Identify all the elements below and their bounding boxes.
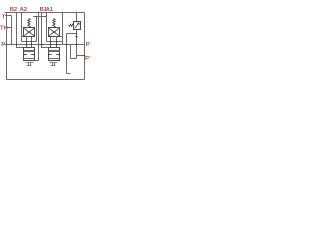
svg-text:P: P (1, 42, 5, 48)
junction lv-right y41.5 (31, 41, 33, 43)
valve V2 bowtie X diagonals (49, 28, 59, 35)
wire ladder drain stub left (35, 60, 39, 62)
junction tank line / P line (11, 44, 13, 46)
wire U bottom (71, 58, 77, 60)
junction PT / right border (84, 55, 86, 57)
spring S1 on valve V1 (28, 19, 31, 28)
wire from link dot down (36, 17, 38, 42)
wire relief valve feed (76, 13, 78, 22)
wire top rail (5, 12, 85, 14)
wire feed B1 lower to ladder (42, 45, 49, 48)
valve V2 body (49, 28, 60, 37)
ladder L1 rung 3 broken (24, 54, 35, 56)
junction rv-left y44.5 (50, 44, 52, 46)
junction pilot / P line (66, 44, 68, 46)
wire feed B2 (16, 13, 18, 45)
junction P-left (6, 44, 8, 46)
wire right valve lower-right port (56, 37, 58, 48)
ladder L1 rung 4 (24, 58, 35, 60)
svg-text:P: P (86, 42, 90, 48)
wire link line right section (33, 16, 47, 18)
valve V1 bowtie X diagonals (24, 28, 34, 35)
svg-text:PT: PT (85, 56, 90, 62)
ladder L2 rung 4 (49, 58, 60, 60)
junction rv-left y41.5 (50, 41, 52, 43)
wire P stub (5, 44, 7, 46)
ladder L1 rung 1 (24, 50, 35, 52)
relief valve RV1 body (74, 22, 81, 30)
wire right of right valve (62, 13, 64, 45)
spring S3 relief valve (69, 24, 74, 26)
valve V1 bowtie center tips (28, 31, 31, 33)
wire feed A1 (46, 13, 48, 42)
valve V2 bowtie center tips (53, 31, 56, 33)
junction rv-right y41.5 (56, 41, 58, 43)
junction lv-left y41.5 (26, 41, 28, 43)
spring S2 on valve V2 (53, 19, 56, 28)
junction feed B2 / P line (16, 44, 18, 46)
wire U left upright (70, 45, 72, 59)
plug symbol below ladder L2 (50, 63, 58, 66)
wire right valve lower-left port (50, 37, 52, 48)
junction link dot (36, 16, 38, 18)
ladder block L1 body (24, 48, 35, 61)
junction L1 rung3 right (33, 54, 35, 56)
wire tank stub (67, 73, 71, 75)
ladder L2 rung 1 (49, 50, 60, 52)
arrowhead flow direction on drain (75, 36, 77, 38)
junction L1 rung3 left (23, 54, 25, 56)
junction L2 rung3 right (58, 54, 60, 56)
plug symbol below ladder L1 (26, 63, 34, 66)
wire feed B2 lower to ladder (17, 45, 24, 48)
junction lv-right y44.5 (31, 44, 33, 46)
wire right border (84, 13, 86, 80)
wire T/TH tank line (11, 16, 13, 45)
wire horizontal y41.5 right section (47, 41, 63, 43)
wire pilot vertical down to tank corner (66, 34, 68, 74)
wire PT line to right border (77, 55, 85, 57)
wire feed A2 (21, 13, 23, 42)
ladder L2 rung 3 broken (49, 54, 60, 56)
wire left valve lower-right port (31, 37, 33, 48)
junction L2 rung3 left (48, 54, 50, 56)
wire horizontal y36.5 right section (57, 36, 63, 38)
wire horizontal y36.5 left section (22, 36, 27, 38)
junction lv-left y44.5 (26, 44, 28, 46)
wire left border (6, 13, 8, 80)
ladder L2 rung 2 (49, 51, 60, 53)
valve V1 body (24, 28, 35, 37)
wire T stub (5, 15, 12, 17)
wire horizontal y41.5 left section (22, 41, 37, 43)
relief valve RV1 arrow (75, 23, 80, 29)
junction rv-right y44.5 (56, 44, 58, 46)
junction drain / P line (76, 44, 78, 46)
wire pilot horizontal (67, 33, 77, 35)
wire bottom border (7, 79, 85, 81)
wire TH stub (5, 27, 12, 29)
wire P distribution line (7, 44, 85, 46)
wire left valve lower-left port (26, 37, 28, 48)
wire feed B1 (41, 13, 43, 45)
junction pilot tap (76, 33, 78, 35)
wire relief valve drain (76, 30, 78, 59)
ladder block L2 body (49, 48, 60, 61)
wire right of left valve / ladder drain (38, 13, 40, 61)
ladder L1 rung 2 (24, 51, 35, 53)
junction feed B1 / P line (41, 44, 43, 46)
